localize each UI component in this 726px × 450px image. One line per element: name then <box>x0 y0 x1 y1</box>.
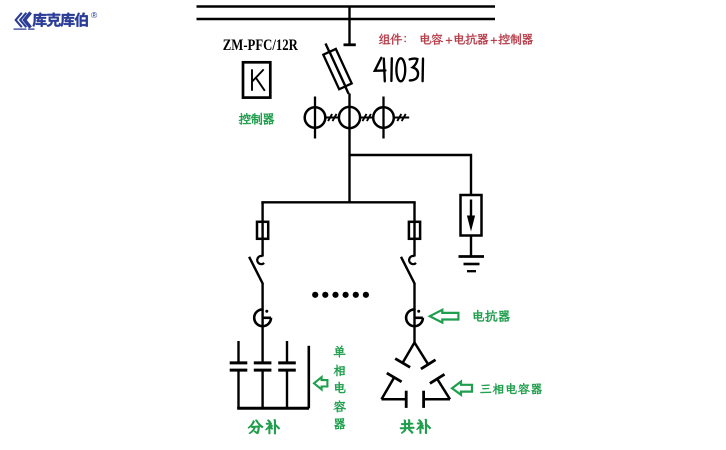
wire: branch drop at x=414.5 <box>413 202 415 256</box>
green label: 三相电容器 <box>480 383 541 394</box>
current transformer CT1 <box>305 97 326 139</box>
green label: 电抗器 (reactor) <box>473 310 509 322</box>
current transformer CT3 <box>373 97 394 139</box>
wire: main vertical feeder <box>348 94 350 204</box>
logo tiny slogan text <box>14 28 35 30</box>
green label: 分补 <box>248 420 279 434</box>
wire: reactor to single-phase capacitor bank <box>261 326 263 362</box>
switch blade (open contact) <box>249 257 263 284</box>
switch fixed contact hook <box>409 256 416 264</box>
wire: incomer drop from busbar <box>344 7 356 45</box>
green arrow pointing to delta capacitor <box>452 382 472 395</box>
ground symbol <box>459 257 485 272</box>
red label: 组件：电容+电抗器+控制器 <box>379 33 533 45</box>
svg-text:®: ® <box>91 10 98 20</box>
surge arrester FV (box with down arrow) <box>461 195 482 236</box>
ellipsis dots (further branches omitted) <box>312 292 369 298</box>
junction dot artifact near reactor <box>417 310 420 313</box>
reactor (circle with radius arm) <box>406 309 423 326</box>
wire: blade to reactor <box>261 283 263 310</box>
wire: branch header (junction to left and right branch) <box>261 201 415 203</box>
green vertical label: 单相电容器 <box>334 346 346 430</box>
svg-text:ZM-PFC/12R: ZM-PFC/12R <box>223 36 298 54</box>
green label: 控制器 (controller) <box>239 113 274 125</box>
green arrow pointing to single-phase capacitor bank <box>314 377 327 389</box>
switch fixed contact hook <box>257 256 264 264</box>
capacitor bank C1 bottom bus and right riser <box>237 346 309 409</box>
capacitor bank C1: three single-phase capacitors <box>230 341 296 408</box>
capacitor bank C2: three-phase delta capacitor <box>382 343 451 408</box>
wire: blade to reactor <box>413 283 415 310</box>
wire: branch to surge arrester <box>350 155 472 195</box>
fuse-switch FU (main fuse on slanted blade) <box>323 44 351 94</box>
handwritten number 41031 <box>375 58 423 82</box>
green arrow pointing to reactor <box>430 310 459 323</box>
wire: arrester to ground <box>470 236 472 257</box>
CT secondary link with double-slash (CT1-CT2) <box>325 114 339 121</box>
current transformer CT2 (on feeder) <box>339 107 360 128</box>
logo icon (triple chevron K) <box>16 12 31 27</box>
logo wordmark 库克库伯 <box>33 13 88 27</box>
CT secondary link with double-slash (after CT3) <box>394 114 409 121</box>
controller K box <box>243 62 270 97</box>
busbar (two horizontal bus lines) <box>197 7 496 20</box>
switch blade (open contact) <box>401 257 415 284</box>
wire: branch drop at x=262.6 <box>261 202 263 256</box>
branch fuse (rectangle on wire) <box>409 222 420 239</box>
junction dot artifact near reactor <box>265 310 268 313</box>
branch fuse (rectangle on wire) <box>257 222 268 239</box>
wire: reactor to delta capacitor <box>413 326 415 343</box>
CT secondary link with double-slash (CT2-CT3) <box>360 114 373 121</box>
reactor (circle with radius arm) <box>254 309 271 326</box>
green label: 共补 <box>400 419 430 433</box>
